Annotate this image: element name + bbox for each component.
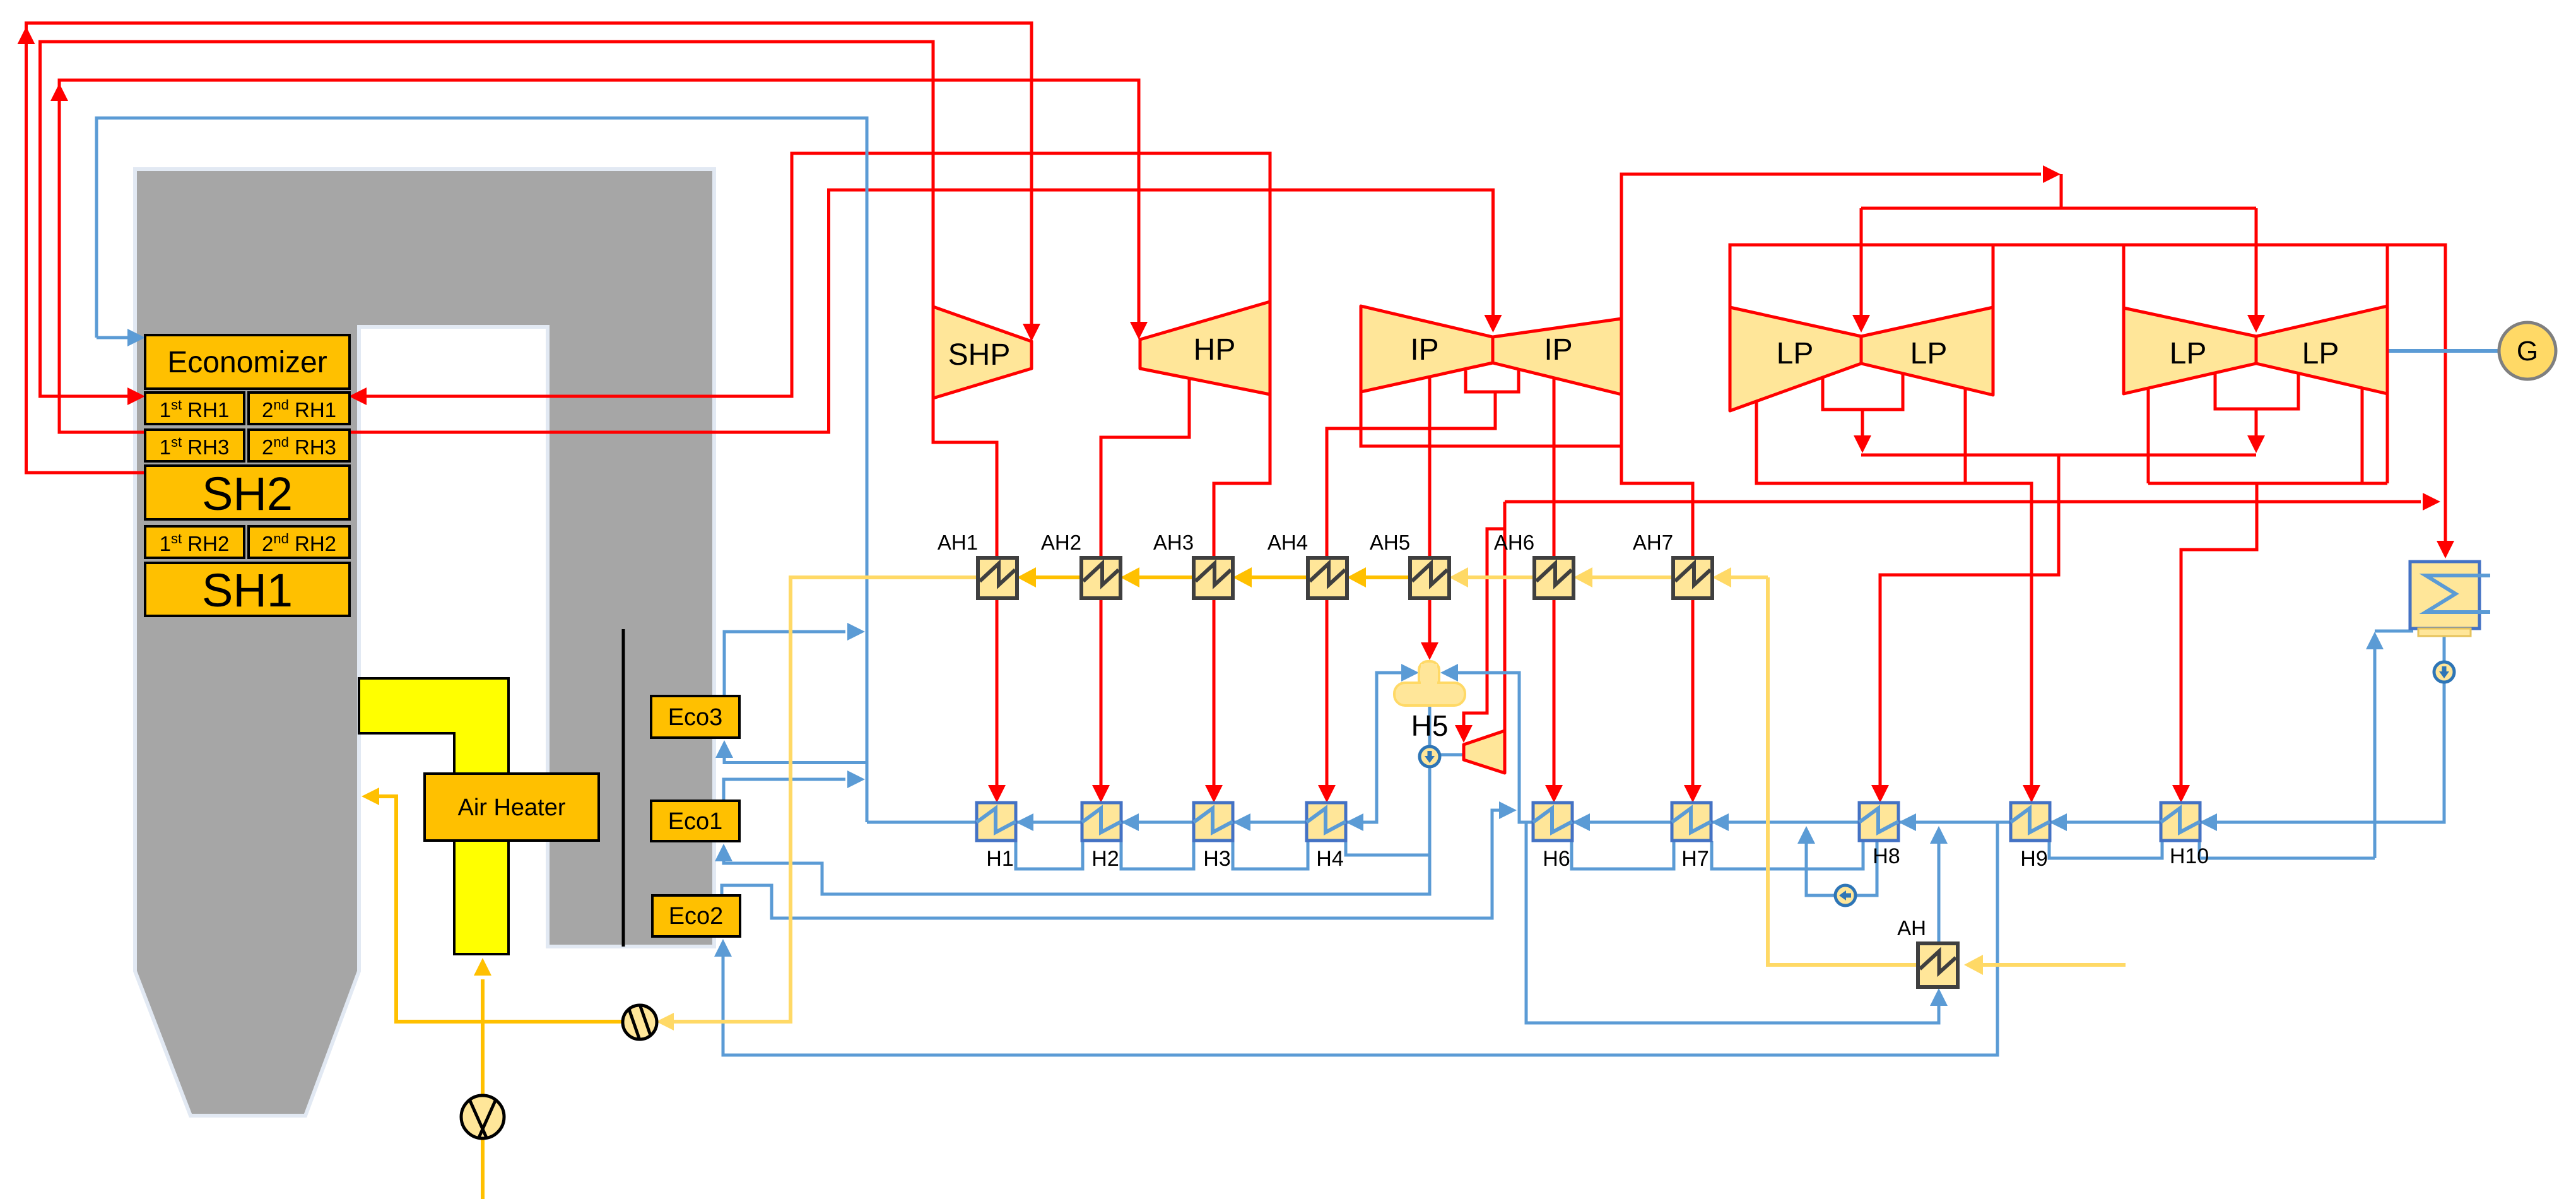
svg-text:Air Heater: Air Heater [457, 794, 565, 821]
wire BFPT exhaust line to condenser [1505, 500, 2421, 504]
air line AH4-AH5 segment [1363, 575, 1410, 579]
arrow into LP1 inlet [1852, 315, 1870, 333]
wire Eco1 outlet [724, 779, 845, 801]
heat exchanger AH6 [1534, 558, 1573, 598]
heat exchanger AH2 [1081, 558, 1120, 598]
arrow Eco2 outlet merge [1499, 801, 1517, 819]
svg-text:1st RH1: 1st RH1 [160, 397, 230, 422]
svg-text:Economizer: Economizer [167, 346, 327, 379]
wire cold reheat SHP exhaust to 1st RH1 [40, 42, 934, 396]
arrow into H7 feed [1711, 813, 1729, 831]
svg-text:H9: H9 [2020, 847, 2047, 871]
air line steam AH supply end [1980, 963, 2126, 967]
wire Eco3 outlet [724, 632, 845, 696]
turbine LP2 right [2256, 306, 2387, 394]
arrow BFPT line merge [2423, 493, 2440, 511]
arrow into H3 [1205, 785, 1223, 803]
heater H6 [1533, 803, 1572, 841]
air line AH1-AH2 segment [1033, 575, 1081, 579]
wire drain H9-H10 [2049, 841, 2162, 858]
box Eco2 [652, 895, 740, 936]
generator G [2499, 322, 2556, 379]
wire BFPT steam supply [1464, 502, 1505, 731]
svg-text:LP: LP [1777, 337, 1814, 370]
wire H4 feed riser [1361, 673, 1404, 822]
air line AH1 outlet to FD fan [673, 577, 978, 1022]
box 2nd RH2 [249, 526, 350, 558]
wire Eco2 outlet [722, 810, 1502, 918]
svg-text:AH7: AH7 [1633, 531, 1673, 554]
arrow into Eco3 bottom [715, 740, 733, 758]
svg-text:HP: HP [1194, 333, 1236, 367]
svg-text:SH2: SH2 [202, 468, 293, 520]
wire drain H3-H4 [1233, 841, 1308, 869]
air line PA fan discharge [481, 979, 485, 1097]
flow arrow up on RH3-HP line [50, 83, 68, 101]
pump BFP (boiler feed pump) [1420, 747, 1440, 767]
air line AH6 to AH7... AH6-AH7 segment [1590, 575, 1673, 579]
turbine BFPT [1464, 731, 1505, 773]
heater H9 [2011, 803, 2050, 841]
wire H1 outlet to Eco3 [724, 755, 977, 822]
arrow into AH4 [1347, 567, 1366, 587]
arrow into H9 feed [2049, 813, 2067, 831]
air line AH2-AH3 segment [1137, 575, 1194, 579]
turbine LP1 right [1861, 307, 1993, 395]
wire main steam SH2 to SHP [26, 23, 1032, 473]
deaerator H5 cloud [1394, 661, 1465, 705]
heater H3 [1194, 803, 1233, 841]
air line AH5-AH6 segment [1466, 575, 1534, 579]
arrow into AH bottom [1930, 988, 1948, 1006]
box SH1 [145, 563, 350, 616]
arrow into H3 feed [1233, 813, 1250, 831]
wire economizer feed stub [97, 336, 130, 339]
svg-text:SHP: SHP [948, 338, 1011, 372]
wire header drain to H8 [1880, 455, 2059, 789]
svg-text:G: G [2517, 336, 2538, 367]
wire condenser drain to pump [2443, 635, 2446, 661]
wire BFP-BFPT shaft [1440, 753, 1464, 757]
pump condensate [2434, 662, 2454, 682]
svg-text:1st RH2: 1st RH2 [160, 531, 230, 555]
wire generator shaft [2387, 349, 2499, 353]
arrow into H4 [1318, 785, 1336, 803]
arrow into AH1 [1017, 567, 1036, 587]
arrow into H10 feed [2199, 813, 2217, 831]
turbine IP right [1493, 319, 1621, 394]
wire drain H6-H7 [1572, 841, 1674, 869]
heat exchanger AH (steam air heater) [1918, 943, 1958, 987]
wire Eco2 feed from main line [723, 822, 1997, 1055]
arrow into LP2 inlet [2247, 315, 2265, 333]
turbine LP2 left [2124, 308, 2256, 394]
fan FD (forced draft) [623, 1005, 657, 1039]
arrow into Eco2 bottom [714, 939, 732, 957]
wire LP1 inlet drop [1860, 208, 1863, 319]
arrow into H6 feed [1572, 813, 1590, 831]
svg-text:AH: AH [1897, 916, 1926, 940]
condenser coil [2426, 575, 2490, 612]
svg-text:IP: IP [1544, 333, 1572, 367]
wire HP exhaust extraction to AH3/H3 [1214, 394, 1270, 789]
heater H1 [977, 803, 1016, 841]
air line AH3-AH4 segment [1249, 575, 1308, 579]
box 1st RH1 [145, 392, 244, 424]
arrow into H1 feed [1016, 813, 1033, 831]
wire drain H2-H3 [1121, 841, 1194, 869]
wire IP-right exhaust to AH7/H7 [1621, 394, 1693, 789]
svg-text:AH5: AH5 [1370, 531, 1410, 554]
wire LP2-left casing drop [2122, 245, 2126, 308]
wire LP2 extraction manifold [2148, 388, 2387, 483]
heater H2 [1082, 803, 1121, 841]
wire drain H7-H8 [1712, 841, 1863, 869]
arrow into steam AH [1964, 955, 1983, 975]
arrow H8 drain merge [1797, 826, 1815, 844]
wire LP2 gland hood [2215, 374, 2298, 439]
arrow into H9 [2023, 785, 2040, 803]
arrow into H6 [1545, 785, 1563, 803]
arrow LP1 gland to header [1854, 435, 1871, 453]
svg-text:H5: H5 [1411, 709, 1449, 742]
air duct (yellow L) [359, 678, 509, 954]
arrow into 1st RH1 [127, 387, 145, 405]
arrow into air duct [474, 958, 491, 976]
arrow into H5 left inlet [1401, 664, 1419, 682]
svg-text:H2: H2 [1091, 847, 1119, 871]
air line into AH7 [1729, 575, 1768, 579]
wire HP feedwater train H4-H1 [867, 821, 1361, 824]
svg-text:AH6: AH6 [1494, 531, 1534, 554]
arrow into H2 [1092, 785, 1110, 803]
wire main condensate line [1456, 673, 2444, 822]
wire drain H4 to deaerator downcomer [1346, 841, 1430, 855]
wire H8 drain pump loop [1806, 840, 1877, 895]
svg-text:LP: LP [2170, 337, 2207, 370]
flow arrow up on main steam [18, 27, 35, 44]
arrow into AH7 [1712, 567, 1731, 587]
wire economizer feed line [97, 118, 867, 822]
condenser bottom lip [2418, 629, 2471, 636]
arrow into condenser bottom [2366, 632, 2384, 649]
turbine IP left [1361, 306, 1493, 392]
svg-text:Eco2: Eco2 [669, 903, 724, 930]
svg-text:1st RH3: 1st RH3 [160, 434, 230, 459]
air line PA fan suction [481, 1138, 485, 1199]
svg-text:Eco3: Eco3 [668, 704, 723, 731]
boiler backpass divider line [622, 629, 625, 947]
arrow LP2 gland to header [2247, 435, 2265, 453]
arrow into H2 feed [1121, 813, 1139, 831]
wire crossover drop [1861, 174, 2256, 208]
arrow into AH6 [1573, 567, 1592, 587]
arrow into H5 deaerator [1421, 642, 1438, 660]
svg-text:AH1: AH1 [938, 531, 978, 554]
wire LP casing manifold to condenser [1730, 245, 2445, 543]
svg-text:2nd RH2: 2nd RH2 [262, 531, 336, 555]
svg-text:AH2: AH2 [1041, 531, 1081, 554]
arrow into 2nd RH1 [349, 387, 367, 405]
svg-text:H6: H6 [1543, 847, 1570, 871]
turbine LP1 left [1730, 307, 1861, 411]
turbine SHP [933, 307, 1032, 398]
wire IP extraction to AH6/H6 [1553, 377, 1556, 789]
air line FD fan to furnace [378, 796, 623, 1022]
wire drain H10 to condenser riser [2199, 841, 2375, 858]
svg-text:H1: H1 [986, 847, 1013, 871]
air line steam AH to AH7 riser [1768, 577, 1918, 965]
arrow Eco1 outlet merge [847, 770, 865, 788]
wire LP2-right casing drop [2386, 245, 2389, 306]
wire drain H1-H2 [1016, 841, 1083, 869]
svg-text:IP: IP [1410, 333, 1438, 367]
condenser [2410, 562, 2479, 629]
wire LP2 inlet drop [2255, 208, 2258, 319]
svg-text:LP: LP [2302, 337, 2339, 370]
box 2nd RH3 [249, 430, 350, 461]
heat exchanger AH5 [1410, 558, 1449, 598]
box Economizer [145, 335, 350, 389]
svg-text:H4: H4 [1316, 847, 1343, 871]
arrow into AH3 [1233, 567, 1252, 587]
wire condenser bottom stub [2375, 630, 2413, 633]
wire LP1-right casing drop [1992, 245, 1995, 307]
wire HP exhaust to 2nd RH1 [363, 153, 1270, 396]
fan PA (primary air) [461, 1095, 504, 1138]
arrow into H7 [1684, 785, 1702, 803]
arrow Eco3 outlet merge [847, 623, 865, 640]
svg-text:H7: H7 [1681, 847, 1709, 871]
arrow into SHP inlet [1023, 324, 1040, 341]
wire IP extraction to AH5/H5 [1428, 377, 1432, 645]
arrow AH outlet merge [1930, 826, 1948, 844]
heater H8 [1859, 803, 1898, 841]
wire condensate riser to condenser [2373, 646, 2377, 858]
wire LP2 extraction to H10 [2181, 483, 2257, 789]
wire HP extraction to AH2/H2 [1101, 379, 1189, 789]
arrow crossover merge [2043, 165, 2061, 183]
wire LP1-right slope extraction [1964, 389, 1967, 483]
arrow into H4 feed [1346, 813, 1363, 831]
svg-text:H10: H10 [2170, 844, 2209, 868]
wire BFP discharge to Eco1 [724, 767, 1430, 894]
arrow into Eco1 bottom [715, 844, 732, 861]
wire LP1 gland hood [1823, 374, 1903, 439]
svg-text:H3: H3 [1203, 847, 1230, 871]
svg-text:LP: LP [1910, 337, 1948, 370]
wire LP exhaust header [1861, 454, 2256, 457]
box Eco3 [651, 696, 739, 738]
arrow into Economizer [127, 329, 145, 346]
wire AH branch down [1526, 822, 1939, 1023]
box 1st RH3 [145, 430, 244, 461]
box 1st RH2 [145, 526, 244, 558]
wire 2nd RH3 to IP inlet [349, 190, 1493, 432]
box 2nd RH1 [249, 392, 350, 424]
arrow into BFPT [1455, 725, 1473, 743]
box SH2 [145, 466, 350, 519]
wire IP exhaust manifold [1361, 392, 1621, 446]
arrow into FD fan [656, 1013, 674, 1030]
wire LP1 extraction to H9 [1756, 402, 2032, 789]
arrow into IP inlet [1485, 315, 1502, 333]
svg-text:SH1: SH1 [202, 564, 293, 617]
wire IP crossover to LP manifold [1621, 174, 2041, 319]
arrow into H1 [988, 785, 1006, 803]
heat exchanger AH4 [1308, 558, 1347, 598]
box Air Heater [425, 774, 599, 841]
pump H8 drain [1835, 885, 1856, 906]
svg-text:AH3: AH3 [1153, 531, 1194, 554]
svg-text:Eco1: Eco1 [668, 808, 723, 835]
arrow into H5 right inlet [1440, 664, 1458, 682]
boiler gray body [135, 169, 714, 1116]
arrow into H8 feed [1898, 813, 1916, 831]
heater H7 [1672, 803, 1711, 841]
heat exchanger AH1 [978, 558, 1017, 598]
svg-text:2nd RH3: 2nd RH3 [262, 434, 336, 459]
svg-text:AH4: AH4 [1267, 531, 1308, 554]
wire 1st RH3 to HP inlet [59, 80, 1139, 432]
arrow into condenser top [2437, 541, 2454, 558]
svg-text:H8: H8 [1873, 844, 1900, 868]
arrow into AH5 [1449, 567, 1468, 587]
arrow into AH2 [1120, 567, 1139, 587]
heater H4 [1307, 803, 1346, 841]
wire SHP extraction to AH1/H1 [933, 398, 997, 789]
arrow into H10 [2172, 785, 2190, 803]
arrow combustion air into furnace [362, 788, 379, 805]
arrow into HP inlet [1130, 322, 1148, 339]
heat exchanger AH7 [1673, 558, 1712, 598]
wire AH outlet riser [1938, 840, 1941, 943]
arrow into H8 [1871, 785, 1889, 803]
heat exchanger AH3 [1194, 558, 1233, 598]
turbine HP [1140, 302, 1270, 394]
wire H5 downcomer to BFP [1428, 705, 1432, 747]
wire IP gland steam to AH4/H4 [1327, 368, 1519, 789]
heater H10 [2161, 803, 2200, 841]
svg-text:2nd RH1: 2nd RH1 [262, 397, 336, 422]
box Eco1 [651, 801, 739, 841]
